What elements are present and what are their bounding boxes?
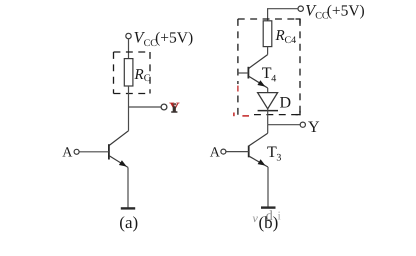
transistor (a) collector diagonal: [109, 131, 129, 146]
transistor (a) base bar: [108, 144, 110, 159]
wire input A to base T3: [226, 151, 249, 153]
dashed box (b) corner stubs: [296, 18, 301, 20]
wire diode to Y junction (b): [267, 109, 269, 125]
resistor RC4: [263, 21, 272, 47]
svg-text:R: R: [134, 67, 144, 83]
node VCC terminal (b): [298, 6, 303, 11]
dashed box (b) top edge: [238, 18, 300, 20]
svg-text:3: 3: [276, 153, 281, 164]
node A terminal (a): [74, 149, 79, 154]
svg-text:(b): (b): [259, 213, 279, 232]
svg-text:(+5V): (+5V): [155, 30, 193, 47]
svg-text:R: R: [275, 28, 285, 44]
transistor T4 base bar: [247, 67, 249, 79]
wire T4 base stub: [237, 72, 248, 74]
transistor (a) emitter with arrow: [109, 156, 128, 168]
resistor RC1: [124, 59, 133, 86]
wire T4 emitter to diode: [267, 88, 269, 93]
svg-text:(+5V): (+5V): [327, 2, 365, 19]
ground (a): [121, 207, 135, 209]
transistor T4 emitter with arrow: [249, 76, 268, 88]
dashed box (b) bottom-left red ticks: [233, 113, 235, 117]
diode D: [258, 93, 278, 109]
dashed box (b) left edge upper (black): [237, 19, 239, 84]
svg-text:Y: Y: [308, 119, 320, 136]
node VCC terminal (a): [126, 33, 131, 38]
wire resistor RC4 to T4 collector: [267, 47, 269, 55]
svg-text:(a): (a): [119, 213, 138, 232]
dashed box (b) left edge lower (black): [237, 96, 239, 115]
node A terminal (b): [221, 149, 226, 154]
svg-text:D: D: [280, 95, 292, 112]
wire VCC to resistor RC4: [268, 9, 298, 21]
svg-text:C4: C4: [285, 35, 297, 46]
ground (b): [261, 206, 276, 208]
wire Y branch (b): [268, 124, 301, 126]
node Y terminal (a): [161, 104, 167, 110]
wire input A to base (a): [79, 151, 109, 153]
svg-text:C: C: [144, 73, 151, 84]
node Y terminal (b): [300, 122, 305, 127]
dashed box (b) bottom edge right (black): [254, 114, 300, 116]
transistor T4 collector diagonal: [248, 55, 267, 69]
transistor T3 emitter with arrow: [249, 156, 268, 167]
dashed box (b) right edge: [299, 19, 301, 115]
transistor T3 base bar: [248, 146, 250, 158]
svg-text:A: A: [210, 145, 221, 160]
wire Y junction down to collector: [128, 107, 130, 131]
svg-text:4: 4: [271, 74, 276, 85]
wire emitter to ground (a): [127, 167, 129, 208]
wire Y branch (a): [129, 106, 162, 108]
wire VCC to resistor RC1: [128, 39, 130, 59]
transistor T3 collector diagonal: [249, 133, 268, 146]
wire emitter to ground (b): [267, 167, 269, 207]
dashed box around RC1: [114, 52, 151, 94]
dashed box (b) left edge red dash: [237, 86, 239, 92]
svg-text:A: A: [62, 146, 73, 161]
wire resistor bottom to Y junction: [128, 86, 130, 107]
wire Y junction down to T3 collector: [267, 125, 269, 134]
